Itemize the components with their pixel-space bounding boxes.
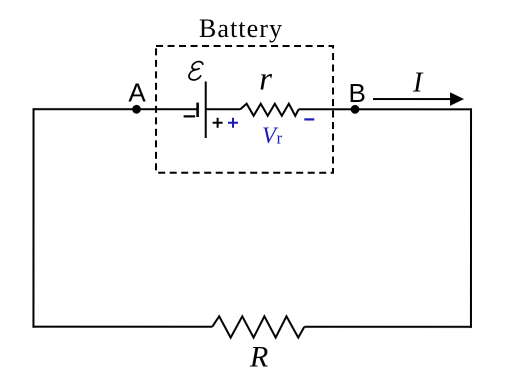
wire: top-left segment from left corner through node A to battery negative plate	[34, 108, 198, 110]
svg-text:I: I	[412, 67, 424, 98]
node B junction dot	[351, 105, 360, 114]
label: blue plus sign (Vr polarity, left)	[228, 118, 238, 128]
label: minus sign at battery negative plate	[184, 115, 196, 117]
svg-text:R: R	[249, 340, 268, 373]
svg-text:A: A	[128, 77, 146, 107]
wire: bottom-left segment to resistor R	[32, 326, 212, 328]
battery cell: short negative plate	[196, 103, 199, 117]
wire: internal resistor r to node B and right corner	[299, 108, 472, 110]
battery enclosure dashed box	[156, 46, 333, 173]
svg-text:r: r	[259, 62, 272, 98]
wire: right vertical side	[470, 108, 472, 327]
svg-text:r: r	[277, 129, 283, 148]
label: EMF script-E symbol	[188, 62, 203, 80]
svg-text:Battery: Battery	[199, 14, 283, 43]
node A junction dot	[132, 105, 141, 114]
wire: battery positive plate to internal resistor r	[206, 108, 240, 110]
wire: left vertical side	[32, 108, 34, 327]
label: black plus sign at battery positive plate	[213, 118, 223, 128]
resistor R (external load) zigzag	[212, 316, 304, 337]
label: blue minus sign (Vr polarity, right)	[304, 118, 314, 120]
wire: bottom-right segment from resistor R to right corner	[304, 326, 472, 328]
svg-text:B: B	[349, 78, 366, 108]
battery cell: long positive plate	[205, 81, 207, 138]
current arrow head	[450, 92, 464, 106]
resistor r (internal resistance) zigzag	[240, 104, 299, 116]
current arrow shaft	[373, 98, 452, 100]
